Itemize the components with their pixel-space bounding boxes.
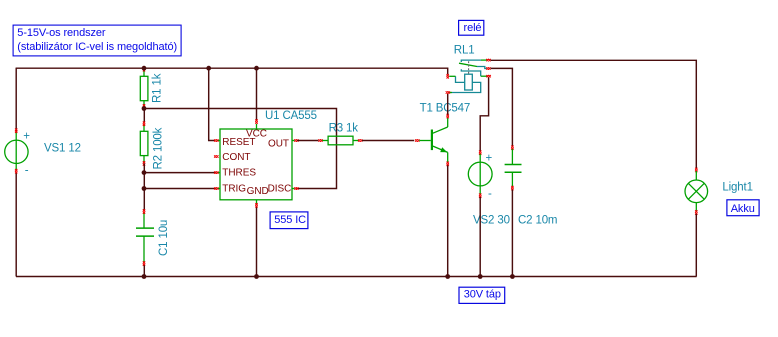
capacitor C1: [136, 209, 170, 265]
wire emitter down: [447, 165, 449, 276]
junction VS2 at ground rail: [478, 274, 483, 279]
svg-text:-: -: [488, 188, 492, 200]
wire GND down: [256, 206, 258, 277]
svg-text:-: -: [25, 165, 29, 177]
svg-text:RESET: RESET: [222, 137, 255, 148]
wire R3 to base: [362, 140, 414, 142]
junction emitter at ground rail: [445, 274, 450, 279]
svg-text:CONT: CONT: [222, 152, 250, 163]
svg-text:30V táp: 30V táp: [464, 289, 501, 301]
wire left rail: [15, 68, 17, 132]
coil left terminal: [456, 76, 465, 82]
voltage source VS2: [468, 151, 510, 227]
wire R2 bottom to C1: [143, 163, 145, 211]
wire relay NO to VS2: [480, 78, 488, 152]
junction C2 at ground rail: [510, 274, 515, 279]
switch arm: [459, 63, 477, 66]
armature dashed link: [468, 61, 470, 73]
svg-text:relé: relé: [464, 22, 482, 34]
svg-text:R2 100k: R2 100k: [152, 127, 164, 169]
op-amp U1 CA555 IC body: [214, 119, 298, 207]
wire R1 bottom to DISC: [144, 109, 337, 189]
wire C2 bottom: [511, 190, 513, 277]
svg-text:Akku: Akku: [731, 203, 755, 215]
svg-text:R3 1k: R3 1k: [329, 122, 359, 134]
note box relé: [459, 20, 484, 35]
switch top contact rail: [461, 60, 481, 62]
svg-text:VS1 12: VS1 12: [44, 143, 81, 155]
note box 30V táp: [459, 287, 505, 303]
svg-text:TRIG: TRIG: [222, 184, 246, 195]
junction R1-R2-DISC node: [142, 106, 147, 111]
svg-text:(stabilizátor IC-vel is megold: (stabilizátor IC-vel is megoldható): [17, 41, 177, 53]
svg-text:R1 1k: R1 1k: [152, 73, 164, 103]
wire VS2 bottom: [479, 197, 481, 277]
svg-text:U1 CA555: U1 CA555: [265, 110, 317, 122]
relay RL1: [446, 45, 491, 94]
wire relay common to lamp: [491, 60, 697, 168]
switch lower contact rail: [461, 69, 480, 76]
wire VCC from top rail: [256, 68, 258, 120]
wire Light1 bottom: [695, 214, 697, 277]
wire RESET from top rail: [209, 68, 215, 140]
wire C1 bottom: [143, 265, 145, 276]
svg-text:VS2 30: VS2 30: [473, 215, 510, 227]
svg-text:DISC: DISC: [268, 184, 292, 195]
svg-text:OUT: OUT: [268, 138, 289, 149]
junction GND pin at ground rail: [254, 274, 259, 279]
wire top rail: [16, 68, 448, 74]
wire collector to relay coil: [447, 94, 449, 115]
coil right terminal: [452, 82, 481, 92]
wire bottom rail: [16, 276, 697, 278]
svg-text:RL1: RL1: [454, 45, 475, 57]
note box 555 IC: [270, 212, 308, 229]
voltage source VS1: [5, 129, 81, 177]
wire THRES: [144, 172, 216, 174]
junction R1 top at VCC rail: [142, 66, 147, 71]
coil box: [465, 74, 473, 90]
note box 5-15V: [13, 25, 181, 56]
transistor T1 BC547: [415, 102, 470, 166]
junction TRIG tap: [142, 186, 147, 191]
svg-text:T1 BC547: T1 BC547: [420, 102, 471, 114]
lamp Light1: [685, 168, 753, 215]
wire TRIG: [144, 188, 216, 190]
wire OUT to R3: [297, 140, 318, 142]
svg-text:C2 10m: C2 10m: [518, 215, 557, 227]
svg-text:THRES: THRES: [222, 168, 256, 179]
resistor R2: [140, 109, 164, 170]
capacitor C2: [505, 146, 558, 227]
resistor R1: [140, 67, 163, 109]
svg-text:555 IC: 555 IC: [274, 214, 306, 226]
svg-text:Light1: Light1: [722, 182, 752, 194]
resistor R3: [318, 122, 362, 145]
junction C1 at ground rail: [142, 274, 147, 279]
svg-text:5-15V-os rendszer: 5-15V-os rendszer: [17, 27, 106, 39]
wire left rail lower: [15, 172, 17, 277]
wire relay arm to C2 node: [491, 68, 513, 146]
svg-text:+: +: [486, 153, 493, 165]
svg-text:+: +: [23, 130, 30, 142]
junction THRES tap: [142, 170, 147, 175]
junction VCC pin branch at VCC rail: [254, 66, 259, 71]
svg-text:GND: GND: [247, 186, 269, 197]
svg-text:C1 10u: C1 10u: [158, 220, 170, 256]
note box Akku: [727, 200, 759, 216]
junction RESET branch at VCC rail: [206, 66, 211, 71]
